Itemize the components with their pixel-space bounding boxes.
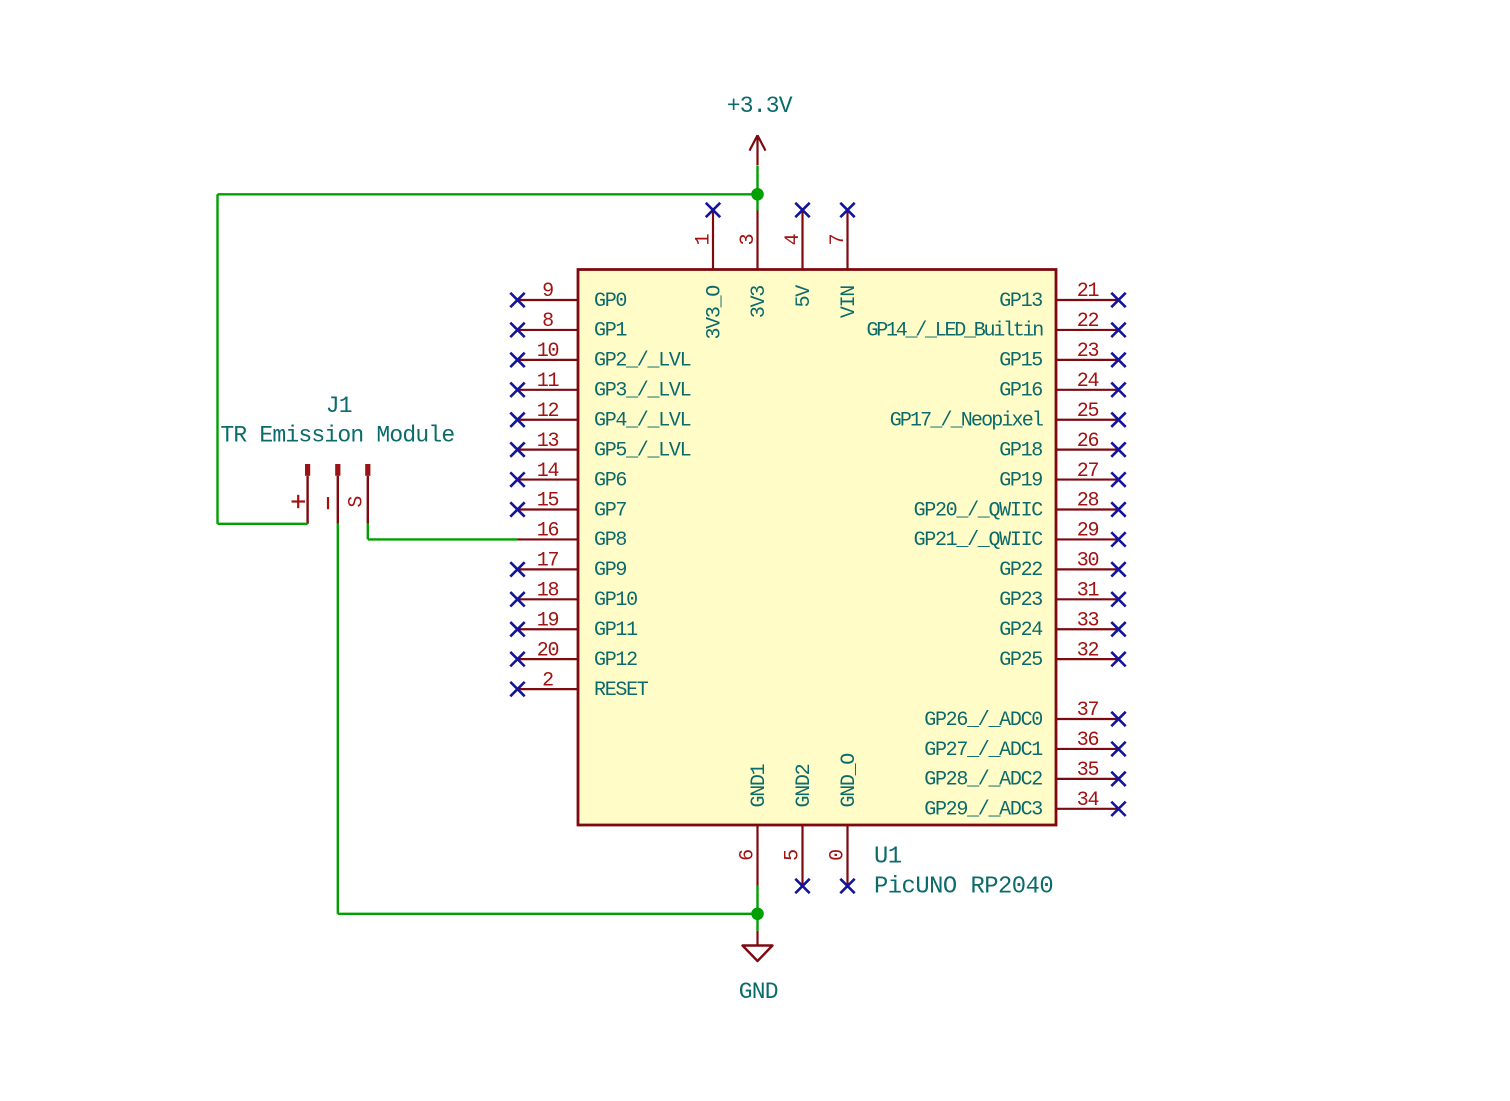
svg-text:5: 5 xyxy=(782,850,805,861)
svg-text:3V3: 3V3 xyxy=(748,286,771,318)
svg-text:GND1: GND1 xyxy=(748,763,771,807)
no-connect X on pin 2 xyxy=(510,682,524,696)
svg-text:6: 6 xyxy=(737,850,760,861)
svg-text:10: 10 xyxy=(537,340,559,363)
svg-text:3: 3 xyxy=(737,234,760,245)
U1 pin 14 GP6 (left) xyxy=(518,460,627,493)
U1 pin 8 GP1 (left) xyxy=(518,310,628,343)
svg-text:19: 19 xyxy=(537,609,559,632)
U1 pin 23 GP15 (right) xyxy=(999,340,1118,373)
no-connect X on pin 37 xyxy=(1111,712,1125,726)
U1 pin 18 GP10 (left) xyxy=(518,580,638,613)
wire horizontal GND rail xyxy=(338,913,758,915)
wire from J1 + pin left xyxy=(218,523,308,525)
svg-text:GP5_/_LVL: GP5_/_LVL xyxy=(594,439,691,462)
svg-text:GP16: GP16 xyxy=(999,380,1042,403)
J1 pin number "S" xyxy=(346,496,369,508)
svg-text:U1: U1 xyxy=(874,844,902,871)
U1 pin 10 GP2_/_LVL (left) xyxy=(518,340,691,373)
U1 pin 19 GP11 (left) xyxy=(518,609,639,642)
J1 pin - pad xyxy=(335,464,340,476)
no-connect X on pin 21 xyxy=(1111,293,1125,307)
svg-text:GP19: GP19 xyxy=(999,469,1042,492)
U1 pin 31 GP23 (right) xyxy=(999,580,1118,613)
svg-text:37: 37 xyxy=(1077,699,1099,722)
wire from J1 - pin down xyxy=(337,524,339,914)
svg-text:GP15: GP15 xyxy=(999,350,1042,373)
svg-text:GP29_/_ADC3: GP29_/_ADC3 xyxy=(924,799,1042,822)
svg-text:8: 8 xyxy=(542,310,553,333)
svg-text:GP4_/_LVL: GP4_/_LVL xyxy=(594,410,691,433)
no-connect X on pin 34 xyxy=(1111,802,1125,816)
U1 pin 9 GP0 (left) xyxy=(518,280,627,313)
U1 pin 12 GP4_/_LVL (left) xyxy=(518,400,691,433)
U1 pin 0 GND_O (bottom) xyxy=(827,754,861,886)
no-connect X on pin 33 xyxy=(1111,622,1125,636)
svg-text:GP23: GP23 xyxy=(999,589,1042,612)
no-connect X on pin 9 xyxy=(510,293,524,307)
U1 pin 26 GP18 (right) xyxy=(999,430,1118,463)
svg-text:14: 14 xyxy=(537,460,559,483)
U1 pin 29 GP21_/_QWIIC (right) xyxy=(914,520,1119,553)
svg-text:36: 36 xyxy=(1077,729,1099,752)
U1 pin 36 GP27_/_ADC1 (right) xyxy=(924,729,1118,762)
U1 pin 15 GP7 (left) xyxy=(518,490,627,523)
power symbol GND xyxy=(743,931,773,961)
svg-text:VIN: VIN xyxy=(838,286,861,318)
J1 pin S lead xyxy=(367,476,369,524)
J1 pin S pad xyxy=(365,464,370,476)
no-connect X on pin 26 xyxy=(1111,442,1125,456)
svg-text:GP7: GP7 xyxy=(594,499,626,522)
no-connect X on pin 35 xyxy=(1111,772,1125,786)
no-connect X on pin 25 xyxy=(1111,413,1125,427)
no-connect X on pin 24 xyxy=(1111,383,1125,397)
svg-text:GP11: GP11 xyxy=(594,619,638,642)
J1 pin + lead xyxy=(306,476,308,524)
svg-text:PicUNO RP2040: PicUNO RP2040 xyxy=(874,874,1053,901)
no-connect X on pin 20 xyxy=(510,652,524,666)
svg-text:GP24: GP24 xyxy=(999,619,1042,642)
wire GND1 pin to junction xyxy=(756,886,758,931)
svg-text:18: 18 xyxy=(537,580,559,603)
U1 pin 16 GP8 (left) xyxy=(518,520,627,553)
U1 pin 25 GP17_/_Neopixel (right) xyxy=(890,400,1119,433)
wire from J1 S pin down xyxy=(367,524,369,540)
svg-text:30: 30 xyxy=(1077,550,1099,573)
svg-text:GP6: GP6 xyxy=(594,469,626,492)
svg-text:27: 27 xyxy=(1077,460,1099,483)
J1 pin + pad xyxy=(305,464,310,476)
J1 pin number "-" xyxy=(327,497,329,509)
no-connect X on pin 18 xyxy=(510,592,524,606)
U1 pin 5 GND2 (bottom) xyxy=(782,764,816,885)
svg-text:25: 25 xyxy=(1077,400,1099,423)
svg-text:31: 31 xyxy=(1077,580,1100,603)
no-connect X on pin 32 xyxy=(1111,652,1125,666)
U1 pin 35 GP28_/_ADC2 (right) xyxy=(924,759,1118,792)
svg-text:GP0: GP0 xyxy=(594,290,626,313)
U1 value label PicUNO RP2040 xyxy=(874,874,1053,901)
svg-text:0: 0 xyxy=(827,850,850,861)
svg-text:RESET: RESET xyxy=(594,679,649,702)
no-connect X on pin 7 xyxy=(840,203,854,217)
net label +3.3V xyxy=(727,93,793,119)
J1 value TR Emission Module xyxy=(220,423,454,449)
svg-text:GP21_/_QWIIC: GP21_/_QWIIC xyxy=(914,529,1044,552)
no-connect X on pin 11 xyxy=(510,383,524,397)
U1 pin 37 GP26_/_ADC0 (right) xyxy=(924,699,1118,732)
svg-text:GP8: GP8 xyxy=(594,529,626,552)
no-connect X on pin 5 xyxy=(795,879,809,893)
svg-text:12: 12 xyxy=(537,400,559,423)
U1 pin 20 GP12 (left) xyxy=(518,639,638,672)
svg-text:GND2: GND2 xyxy=(793,764,816,807)
J1 pin number "+" xyxy=(292,495,306,508)
svg-text:17: 17 xyxy=(537,550,559,573)
no-connect X on pin 0 xyxy=(840,879,854,893)
svg-text:GP20_/_QWIIC: GP20_/_QWIIC xyxy=(914,499,1044,522)
J1 pin - lead xyxy=(337,476,339,524)
svg-text:GP2_/_LVL: GP2_/_LVL xyxy=(594,350,691,373)
U1 pin 7 VIN (top) xyxy=(827,210,861,318)
no-connect X on pin 15 xyxy=(510,502,524,516)
svg-text:26: 26 xyxy=(1077,430,1099,453)
svg-text:32: 32 xyxy=(1077,639,1099,662)
U1 pin 17 GP9 (left) xyxy=(518,550,627,583)
U1 pin 13 GP5_/_LVL (left) xyxy=(518,430,691,463)
no-connect X on pin 36 xyxy=(1111,742,1125,756)
svg-text:28: 28 xyxy=(1077,490,1099,513)
wire from +3.3V symbol to pin 3 xyxy=(756,166,758,211)
svg-text:5V: 5V xyxy=(793,285,816,308)
U1 pin 21 GP13 (right) xyxy=(999,280,1118,313)
power symbol +3.3V xyxy=(750,135,766,165)
wire horizontal +3.3V rail xyxy=(218,193,758,195)
IC U1 body xyxy=(578,270,1056,826)
U1 reference label xyxy=(874,844,902,871)
U1 pin 33 GP24 (right) xyxy=(999,609,1118,642)
no-connect X on pin 13 xyxy=(510,442,524,456)
svg-text:35: 35 xyxy=(1077,759,1099,782)
svg-text:GP9: GP9 xyxy=(594,559,626,582)
connector J1 reference xyxy=(326,393,352,419)
svg-text:11: 11 xyxy=(537,370,560,393)
no-connect X on pin 27 xyxy=(1111,472,1125,486)
no-connect X on pin 28 xyxy=(1111,502,1125,516)
svg-text:S: S xyxy=(346,496,369,508)
U1 pin 6 GND1 (bottom) xyxy=(737,763,771,885)
U1 pin 11 GP3_/_LVL (left) xyxy=(518,370,691,403)
svg-text:TR Emission Module: TR Emission Module xyxy=(220,423,454,449)
junction GND node xyxy=(751,908,764,921)
svg-text:23: 23 xyxy=(1077,340,1099,363)
svg-text:20: 20 xyxy=(537,639,559,662)
no-connect X on pin 22 xyxy=(1111,323,1125,337)
svg-text:GP3_/_LVL: GP3_/_LVL xyxy=(594,380,691,403)
svg-text:4: 4 xyxy=(782,234,805,245)
svg-text:1: 1 xyxy=(693,233,716,245)
wire vertical up left side xyxy=(216,194,218,524)
no-connect X on pin 30 xyxy=(1111,562,1125,576)
net label GND xyxy=(739,979,778,1005)
svg-text:J1: J1 xyxy=(326,393,352,419)
svg-text:GP12: GP12 xyxy=(594,649,637,672)
svg-text:16: 16 xyxy=(537,520,559,543)
svg-text:GP1: GP1 xyxy=(594,320,627,343)
no-connect X on pin 17 xyxy=(510,562,524,576)
svg-text:GND_O: GND_O xyxy=(838,754,861,808)
U1 pin 1 3V3_O (top) xyxy=(693,210,727,340)
svg-text:GP22: GP22 xyxy=(999,559,1042,582)
no-connect X on pin 19 xyxy=(510,622,524,636)
U1 pin 27 GP19 (right) xyxy=(999,460,1118,493)
no-connect X on pin 29 xyxy=(1111,532,1125,546)
svg-text:GP13: GP13 xyxy=(999,290,1042,313)
no-connect X on pin 14 xyxy=(510,472,524,486)
svg-text:GP26_/_ADC0: GP26_/_ADC0 xyxy=(924,709,1042,732)
svg-text:15: 15 xyxy=(537,490,559,513)
U1 pin 34 GP29_/_ADC3 (right) xyxy=(924,789,1118,822)
no-connect X on pin 12 xyxy=(510,413,524,427)
svg-text:GP28_/_ADC2: GP28_/_ADC2 xyxy=(924,769,1042,792)
U1 pin 22 GP14_/_LED_Builtin (right) xyxy=(866,310,1118,343)
svg-text:21: 21 xyxy=(1077,280,1100,303)
U1 pin 4 5V (top) xyxy=(782,210,816,307)
U1 pin 30 GP22 (right) xyxy=(999,550,1118,583)
svg-text:7: 7 xyxy=(827,234,850,245)
svg-text:GP27_/_ADC1: GP27_/_ADC1 xyxy=(924,739,1043,762)
svg-text:+3.3V: +3.3V xyxy=(727,93,793,119)
svg-text:29: 29 xyxy=(1077,520,1099,543)
svg-text:34: 34 xyxy=(1077,789,1099,812)
svg-text:GP14_/_LED_Builtin: GP14_/_LED_Builtin xyxy=(866,320,1043,343)
svg-text:GP10: GP10 xyxy=(594,589,637,612)
U1 pin 24 GP16 (right) xyxy=(999,370,1118,403)
no-connect X on pin 23 xyxy=(1111,353,1125,367)
no-connect X on pin 31 xyxy=(1111,592,1125,606)
svg-text:GND: GND xyxy=(739,979,778,1005)
svg-text:3V3_O: 3V3_O xyxy=(703,286,726,340)
svg-text:13: 13 xyxy=(537,430,559,453)
no-connect X on pin 4 xyxy=(795,203,809,217)
svg-text:22: 22 xyxy=(1077,310,1099,333)
U1 pin 32 GP25 (right) xyxy=(999,639,1118,672)
svg-text:GP17_/_Neopixel: GP17_/_Neopixel xyxy=(890,410,1043,433)
svg-text:24: 24 xyxy=(1077,370,1099,393)
junction +3.3V node xyxy=(751,188,764,201)
wire S to GP8 xyxy=(368,538,518,540)
no-connect X on pin 8 xyxy=(510,323,524,337)
U1 pin 28 GP20_/_QWIIC (right) xyxy=(914,490,1119,523)
svg-text:2: 2 xyxy=(542,669,553,692)
svg-text:9: 9 xyxy=(542,280,553,303)
no-connect X on pin 1 xyxy=(706,203,720,217)
svg-text:33: 33 xyxy=(1077,609,1099,632)
U1 pin 3 3V3 (top) xyxy=(737,210,771,318)
svg-text:GP25: GP25 xyxy=(999,649,1042,672)
no-connect X on pin 10 xyxy=(510,353,524,367)
U1 pin 2 RESET (left) xyxy=(518,669,649,702)
svg-text:GP18: GP18 xyxy=(999,439,1042,462)
